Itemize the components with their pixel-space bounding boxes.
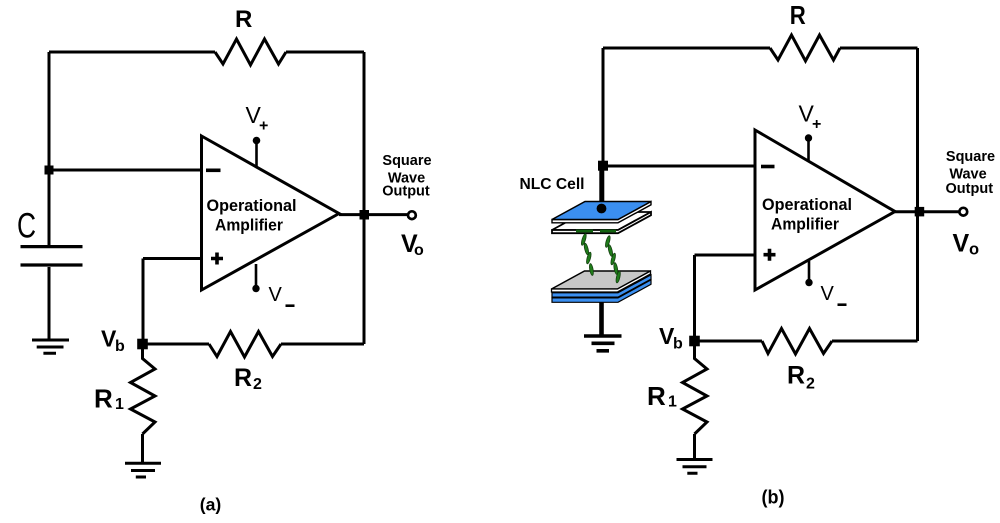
resistor R2 (a)	[209, 332, 281, 358]
output terminal (b)	[959, 208, 967, 216]
wire output (b)	[895, 210, 960, 213]
wire top-left horizontal (b)	[603, 47, 770, 50]
wire top-right horizontal (a)	[286, 51, 364, 54]
op-amp U1 (a)	[202, 136, 340, 290]
NLC cell contact dot	[597, 204, 607, 214]
resistor R (b)	[770, 35, 840, 61]
wire bottom right segment (b)	[832, 340, 918, 343]
V+ terminal (b)	[807, 138, 810, 162]
node Vb (b)	[689, 336, 700, 347]
capacitor C (a)	[21, 247, 83, 265]
wire right vertical (b)	[916, 48, 919, 341]
wire non-inverting input (b)	[695, 255, 756, 341]
NLC cell top glass plate (white)	[552, 212, 651, 230]
V- terminal (a)	[255, 264, 258, 289]
svg-text:R: R	[94, 384, 113, 414]
NLC liquid-crystal molecules (green, right chain)	[605, 235, 622, 283]
svg-text:(b): (b)	[762, 487, 785, 509]
svg-text:R: R	[790, 0, 806, 30]
node inverting-input junction (b)	[598, 161, 608, 171]
wire inverting input (a)	[49, 169, 201, 172]
wire bottom left segment (a)	[143, 343, 209, 346]
node inverting-input junction (a)	[45, 166, 54, 175]
svg-text:o: o	[414, 242, 424, 259]
svg-text:(a): (a)	[200, 495, 222, 515]
svg-text:R: R	[787, 362, 805, 390]
svg-text:b: b	[115, 338, 125, 355]
NLC cell bottom electrode plate (blue strip 2)	[552, 280, 651, 302]
svg-text:1: 1	[668, 394, 677, 411]
wire bottom right segment (a)	[281, 343, 364, 346]
resistor R1 (b)	[683, 341, 708, 434]
op-amp plus sign (a)	[211, 253, 223, 265]
ground (R1, a)	[125, 463, 161, 477]
node Vb (a)	[137, 339, 148, 350]
svg-text:b: b	[673, 336, 683, 353]
ground (R1, b)	[677, 460, 713, 474]
node output junction (b)	[915, 207, 925, 217]
svg-text:1: 1	[115, 396, 124, 413]
resistor R (a)	[215, 39, 286, 65]
NLC liquid-crystal molecules (green, under top plate)	[576, 230, 593, 233]
wire node to capacitor (a)	[48, 170, 51, 246]
ground (NLC cell, b)	[584, 336, 622, 351]
NLC liquid-crystal molecules (green, left chain)	[580, 233, 594, 275]
NLC cell bottom electrode plate (blue strip 1)	[552, 275, 651, 297]
wire top-left horizontal (a)	[49, 51, 215, 54]
svg-text:Operational: Operational	[762, 195, 852, 214]
svg-text:2: 2	[253, 376, 262, 393]
svg-text:+: +	[812, 116, 821, 133]
svg-text:o: o	[969, 241, 979, 259]
NLC cell top electrode plate (blue)	[552, 202, 651, 223]
svg-text:R: R	[235, 6, 252, 33]
wire bottom left segment (b)	[695, 340, 763, 343]
node output junction (a)	[360, 210, 370, 220]
wire top-right horizontal (b)	[840, 47, 918, 50]
svg-text:+: +	[259, 118, 268, 135]
svg-text:Amplifier: Amplifier	[215, 216, 283, 235]
svg-text:Square: Square	[382, 153, 431, 169]
svg-text:C: C	[17, 207, 36, 246]
NLC cell bottom glass plate (gray)	[552, 271, 651, 289]
svg-text:V: V	[821, 283, 835, 305]
ground (capacitor, a)	[32, 340, 69, 353]
wire left vertical (b)	[602, 48, 605, 166]
svg-text:2: 2	[806, 376, 815, 393]
output terminal (a)	[408, 211, 416, 219]
wire inverting input (b)	[603, 165, 755, 168]
svg-text:Amplifier: Amplifier	[771, 215, 839, 234]
V+ terminal (a)	[255, 141, 258, 167]
svg-text:Operational: Operational	[207, 196, 297, 215]
wire right vertical (a)	[363, 52, 366, 344]
resistor R1 (a)	[131, 344, 156, 434]
wire non-inverting input (a)	[143, 259, 201, 345]
wire R1 to ground (a)	[141, 434, 144, 462]
op-amp U2 (b)	[755, 130, 895, 290]
svg-text:R: R	[647, 381, 666, 411]
svg-text:Output: Output	[946, 181, 994, 197]
svg-text:R: R	[234, 364, 252, 392]
resistor R2 (b)	[762, 329, 832, 355]
wire R1 to ground (b)	[693, 434, 696, 458]
svg-text:Output: Output	[382, 184, 430, 200]
op-amp plus sign (b)	[764, 249, 776, 261]
wire left vertical (a)	[48, 52, 51, 170]
wire capacitor to ground (a)	[48, 267, 51, 339]
op-amp minus sign (a)	[206, 169, 221, 173]
svg-text:V: V	[953, 230, 970, 258]
op-amp minus sign (b)	[761, 165, 775, 169]
svg-text:V: V	[269, 284, 283, 306]
V- terminal (b)	[808, 261, 811, 283]
wire output (a)	[339, 213, 408, 216]
wire node to NLC cell (b)	[599, 166, 604, 206]
svg-text:Square: Square	[946, 149, 995, 165]
wire NLC cell to ground (b)	[599, 302, 604, 335]
svg-text:NLC Cell: NLC Cell	[520, 176, 585, 193]
